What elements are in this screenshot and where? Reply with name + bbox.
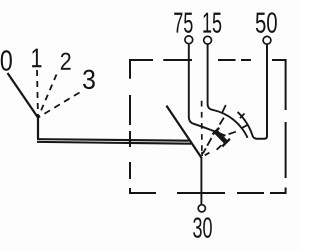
label 2 (61, 53, 71, 70)
terminal label 50 (256, 12, 277, 33)
mechanical linkage double line (bottom) (37, 142, 191, 144)
terminal label 75 (174, 13, 192, 33)
label 0 (1, 50, 12, 71)
position-2 dashed line (left diagram) (38, 75, 57, 118)
wire terminal 50 down with foot to arc end (256, 44, 268, 139)
switch wiper (position 0, solid) (166, 106, 201, 158)
wire pivot down to terminal 30 (200, 157, 202, 205)
dashed enclosure box top border (130, 60, 286, 110)
position-0 solid lever line (left diagram) (8, 73, 39, 118)
mechanical linkage double line (top) (37, 139, 189, 141)
terminal label 30 (193, 217, 212, 238)
wire terminal 75 down into box with inner contact arc (189, 44, 226, 136)
dashed wiper ghost position 1 (vertical) (201, 101, 203, 152)
position-3 dashed line (left diagram) (38, 93, 80, 118)
label 3 (83, 70, 95, 89)
dashed enclosure box bottom border (130, 192, 279, 194)
dashed wiper ghost position 2 (~61 deg) (203, 105, 226, 153)
terminal circle 30 (198, 205, 205, 212)
terminal circle 15 (204, 36, 212, 44)
terminal circle 75 (185, 36, 193, 44)
contact arc segment for 50 (238, 112, 257, 139)
wire terminal 15 down into box with outer contact arc (208, 44, 248, 138)
contact bridge thick bar (213, 128, 230, 147)
dashed enclosure box right border (279, 122, 286, 193)
terminal label 15 (203, 13, 221, 33)
position-1 dashed line (left diagram) (37, 70, 38, 118)
terminal circle 50 (263, 36, 271, 44)
dashed wiper ghost position 1 lowest stub (201, 152, 203, 156)
dashed enclosure box left border (130, 95, 136, 193)
left pivot stub wire down (37, 117, 39, 140)
label 1 (32, 49, 41, 68)
dashed wiper ghost position 3 (~33 deg) (205, 125, 248, 156)
detent tick at 45 deg outside arc (240, 114, 245, 119)
